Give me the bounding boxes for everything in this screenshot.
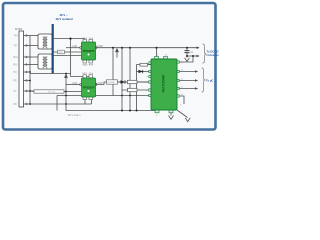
wire bottom 104 xyxy=(30,103,92,105)
wire U2 top feed xyxy=(71,76,92,78)
arrowheads right xyxy=(195,46,200,89)
junction dots xyxy=(29,38,194,112)
wire U2 ILIM xyxy=(66,84,81,86)
wire out2 xyxy=(187,55,199,57)
wire pin7 xyxy=(24,90,35,92)
bus label xyxy=(56,13,73,21)
svg-text:RTN: RTN xyxy=(89,65,94,67)
svg-text:DET: DET xyxy=(83,73,88,75)
wire vertical node 66 xyxy=(65,74,67,105)
svg-text:MAX5940: MAX5940 xyxy=(161,74,166,93)
wire cap node xyxy=(186,48,188,51)
wire pin1 xyxy=(24,35,39,37)
wire riser 136.5 xyxy=(137,65,141,111)
wire return rail xyxy=(66,104,155,111)
wire pin5 xyxy=(24,71,31,73)
svg-text:3: 3 xyxy=(146,77,147,79)
wire U3 right y62 xyxy=(179,56,193,62)
transformer T2 xyxy=(38,54,52,69)
resistor R1 xyxy=(140,63,148,66)
svg-text:CLS: CLS xyxy=(89,73,94,75)
wire res2 to U3 xyxy=(137,81,151,83)
pin direction marks xyxy=(26,34,28,105)
wire node riser xyxy=(70,39,72,77)
svg-text:ILIM: ILIM xyxy=(73,46,78,48)
48V bus bar xyxy=(52,24,54,74)
wire U3 pin96 xyxy=(179,96,184,104)
wire diode row xyxy=(137,71,152,73)
svg-text:VDD: VDD xyxy=(58,52,63,54)
svg-text:5: 5 xyxy=(146,90,147,92)
pin name labels xyxy=(14,35,19,107)
wire bus to U1 b xyxy=(54,55,81,57)
svg-text:TPS2375: TPS2375 xyxy=(83,85,95,89)
arrow up node 66 xyxy=(65,75,68,78)
svg-text:TX+: TX+ xyxy=(14,35,19,38)
diode D2 xyxy=(139,70,143,73)
ground sym cap xyxy=(185,58,190,62)
resistor R2 xyxy=(128,80,138,83)
svg-text:TX-: TX- xyxy=(14,45,18,48)
svg-text:converter: converter xyxy=(207,53,219,57)
arrow up node 117 xyxy=(116,49,119,58)
wire riser 113 xyxy=(112,48,114,96)
PD sense box xyxy=(34,90,64,93)
capacitor C1 xyxy=(185,51,190,53)
svg-text:RJ45: RJ45 xyxy=(15,27,22,31)
IC U1 xyxy=(73,38,104,67)
wire diag gnd xyxy=(177,110,188,118)
svg-text:2: 2 xyxy=(146,72,147,74)
svg-text:CLS: CLS xyxy=(89,38,94,40)
wire U2 bottom pins xyxy=(84,98,86,104)
svg-text:1: 1 xyxy=(146,63,147,65)
svg-text:To DC/DC: To DC/DC xyxy=(207,49,219,53)
wire U2 out xyxy=(96,82,152,85)
svg-text:RX+: RX+ xyxy=(14,56,19,59)
svg-text:6: 6 xyxy=(146,96,147,98)
wire riser 130 xyxy=(129,48,131,111)
ground sym U3 bottom xyxy=(169,116,174,120)
wire riser 122 xyxy=(121,48,123,111)
wire bus to U1 a xyxy=(54,51,81,53)
wire PD box to U2 xyxy=(30,90,34,93)
wire T1 output to U1 xyxy=(52,38,85,40)
ground sym diag xyxy=(185,118,190,122)
diode D1 xyxy=(118,80,126,84)
wire U1 ILIM xyxy=(66,47,81,49)
wire top rail xyxy=(96,47,200,49)
svg-text:TPS2375: TPS2375 xyxy=(83,49,95,53)
svg-text:15: 15 xyxy=(165,55,167,57)
svg-text:VCLMP: VCLMP xyxy=(107,82,115,84)
wire U3 right arrows xyxy=(179,71,197,73)
svg-text:DET: DET xyxy=(83,38,88,40)
wire res3 row xyxy=(122,89,151,91)
wire vertical link bus xyxy=(29,36,31,105)
svg-text:48 V isolated: 48 V isolated xyxy=(56,17,73,21)
resistor R3 xyxy=(128,88,138,91)
label to dcdc xyxy=(207,49,219,57)
svg-text:9: 9 xyxy=(180,105,181,107)
svg-text:16: 16 xyxy=(156,55,158,57)
connector J1 RJ45 xyxy=(19,31,24,107)
IC U3 main controller xyxy=(146,55,182,117)
brace uc xyxy=(202,68,206,92)
wire pin6 xyxy=(24,80,31,82)
svg-text:8: 8 xyxy=(156,115,157,117)
brace dcdc xyxy=(203,44,207,63)
transformer T1 xyxy=(38,34,52,49)
wire pin8 xyxy=(24,103,31,105)
svg-text:ILIM: ILIM xyxy=(73,83,78,85)
svg-text:GND: GND xyxy=(83,65,88,67)
svg-text:4: 4 xyxy=(146,82,147,84)
wire mid return xyxy=(57,95,151,97)
wire U3 top pin riser xyxy=(156,48,158,57)
net label box VDD xyxy=(58,50,65,54)
wire pin2 xyxy=(24,45,39,47)
svg-text:To µC: To µC xyxy=(206,78,213,82)
wire gnd under pin xyxy=(170,113,172,116)
svg-text:RX-: RX- xyxy=(14,64,18,67)
wire pin3 xyxy=(24,56,39,58)
IC U2 xyxy=(73,73,104,99)
Vclamp label box xyxy=(107,80,118,84)
svg-text:PD 25 k: PD 25 k xyxy=(48,92,57,94)
wire pin4 xyxy=(24,64,39,66)
svg-text:48 V return: 48 V return xyxy=(68,114,81,117)
wire lower rail 73.5 xyxy=(30,73,71,75)
